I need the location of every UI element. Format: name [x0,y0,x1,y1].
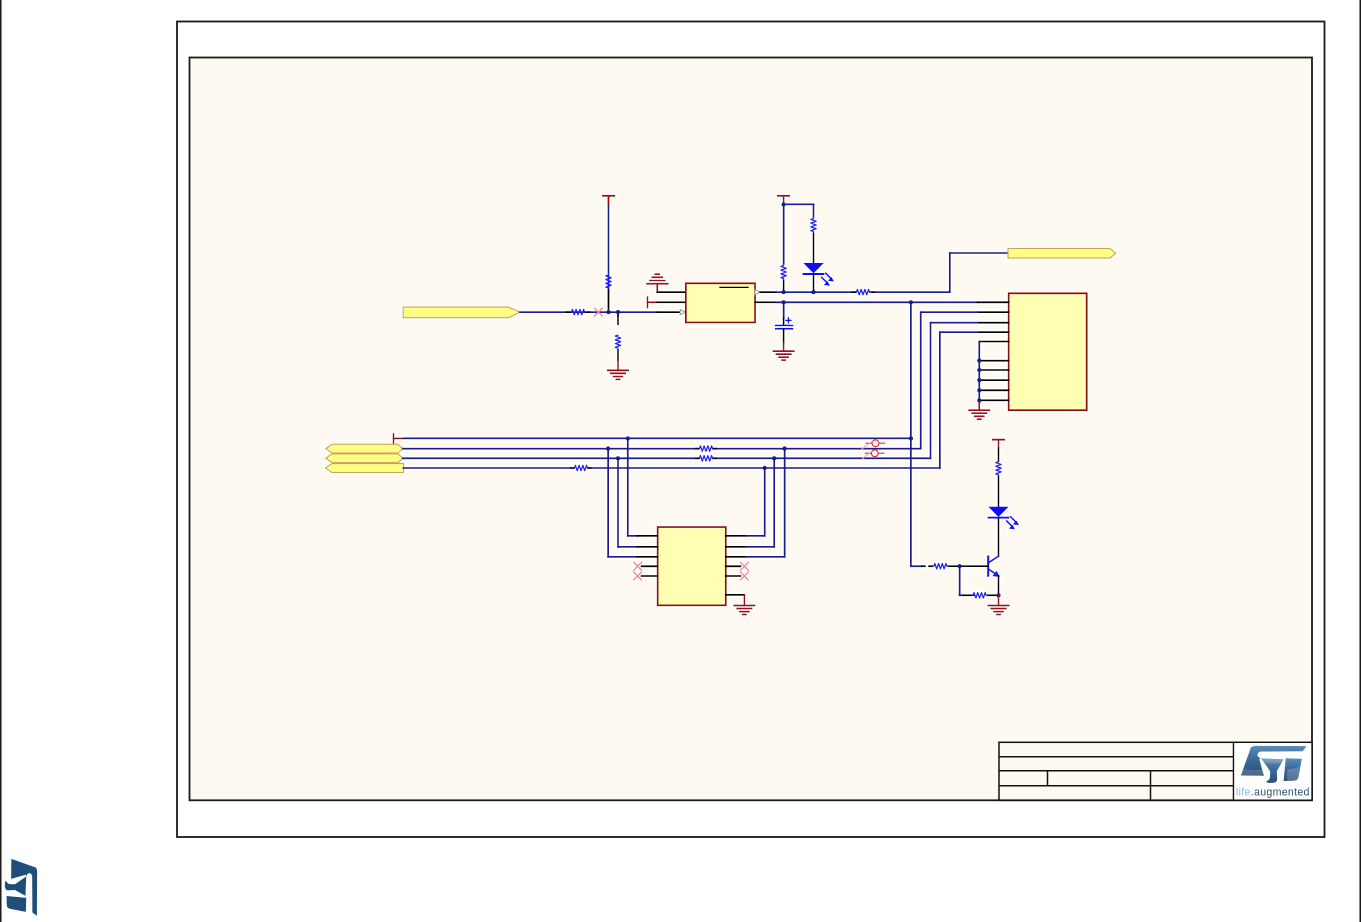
lead to R10 [998,448,1000,461]
resistor R9 on net D [571,465,591,470]
page left edge line [0,0,2,922]
connector J1 [1009,293,1087,410]
input port arrow into U1 [680,310,685,315]
U2 left pins [637,536,657,576]
junction base/pulldown [957,564,961,568]
wire input net [520,311,657,313]
junction at R1 bottom [606,310,610,314]
wire net OUT1 (y=292) [776,253,1008,292]
net label flag (top right) [1008,248,1116,258]
wire U2.1R to net D [746,468,765,536]
power bar symbol on U1 pin 2 [648,297,658,308]
ground G5 (U2) [734,595,754,615]
outer drawing frame [177,22,1325,838]
wire R3 column [617,312,619,316]
junction emitter/pulldown [996,593,1000,597]
output port arrow U1 pin 4 [755,290,760,295]
no-ERC marker 2 [863,450,884,459]
black pin lead into U1 input [657,311,686,313]
resistor R2 [566,309,590,314]
power bar 5V (top of LED branch) [778,196,789,205]
junction net A / U2 branch [626,436,630,440]
no-connect X U2.4L [634,562,642,570]
pin U1.1 [657,291,686,293]
wire J1.3 net [931,323,978,459]
lead D2 to Q1 collector [998,518,1000,556]
page right edge line [1360,0,1361,922]
wire U2.3R to net B [746,449,785,557]
wire net B (y=448.6) [403,448,921,450]
junction C1 top [781,300,785,304]
junctions on ground tie [977,358,981,402]
ground G3 [773,342,793,360]
ST logo (title block) [1241,746,1307,783]
capacitor C1 (polarized) [776,318,793,343]
resistor R5 (left column) [781,266,786,293]
svg-text:life.augmented: life.augmented [1236,787,1310,799]
ground G1 [608,360,628,379]
no-connect X U2.4R [740,562,748,570]
junction at R3 top [616,310,620,314]
wire U2.2R to net C [746,458,774,547]
junction net B / U2 right branch [782,446,786,450]
ESD protection U2 [658,527,726,605]
title block logo cell (white) [1234,743,1311,799]
net label flag PA10 (input) [403,307,520,318]
transistor Q1 (NPN) [988,556,998,576]
junction net OUT2 / vertical [909,300,913,304]
wire net C (y=458.3) [403,457,931,459]
resistor R7 on net B [696,446,716,451]
junction net D / U2 right branch [763,466,767,470]
junction net B / U2 branch [606,446,610,450]
junction R5/net [781,290,785,294]
inverted ground G2 (U1 pin 1) [647,274,668,292]
J1 pins (black stubs) [978,302,1009,400]
ground G6 (Q1) [988,595,1008,614]
pin U1.4 lead [760,291,776,293]
wire net D (y=468) [404,467,940,469]
junction D1/net [811,290,815,294]
no-ERC marker 1 [862,440,885,449]
resistor R1 [606,275,611,308]
wire net A (y=438) [404,437,911,439]
U2 right pins [726,536,746,595]
resistor R11 (base) [922,564,988,569]
Q1 emitter arrow [992,571,1000,577]
wire J1.4 net [940,332,978,468]
wire long vertical x=910.9 [910,302,912,566]
resistor R10 [996,462,1001,508]
wire 5V branch [784,204,814,264]
resistor R6 (LED column) [811,219,816,264]
ground G4 [969,403,989,419]
junction net A / vertical [909,436,913,440]
resistor R12 (pulldown) [973,593,998,598]
no-connect X1 [594,308,602,316]
LED D1 [803,263,834,286]
no-connect X U2.5R [740,572,748,580]
wire net A to U2.1 [628,438,638,536]
no-connect X U2.5L [634,572,642,580]
wire pulldown loop [960,566,964,595]
power bar VBUS [603,196,614,204]
overbar (active-low label) in U1 [720,286,748,288]
wire C1 column [783,302,785,318]
wire J1 ground tie [978,342,980,403]
resistor R4 [852,289,874,294]
pin U1.2 [657,301,686,303]
power bar 5V (transistor branch) [993,440,1004,449]
wire VBUS vertical to R1 [608,197,610,312]
wire net OUT2 (y=302) [776,301,978,303]
opto-isolator U1 [686,283,755,322]
wire net B to U2.3 [608,449,637,557]
wire base net [911,565,922,567]
net label flag B (left) [326,444,403,453]
junction net C / U2 right branch [772,456,776,460]
net label flag D (left) [325,464,403,473]
power bar symbol net A [394,434,404,444]
wire net C to U2.2 [618,458,637,547]
ST logo (page footer, rotated 90deg, clipped at bottom) [5,859,37,916]
schematic sheet [190,58,1313,801]
resistor R3 [615,315,620,360]
junction at 5V branch [781,202,785,206]
pin U1.3 lead [755,301,776,303]
title block [999,742,1312,800]
lead Q1 emitter [998,576,1000,595]
resistor R8 on net C [696,456,716,461]
lead D1 to net [813,275,815,292]
net label flag C (left) [326,454,403,463]
LED D2 [988,507,1019,530]
wire J1.2 net [921,312,978,449]
junction net C / U2 branch [616,456,620,460]
